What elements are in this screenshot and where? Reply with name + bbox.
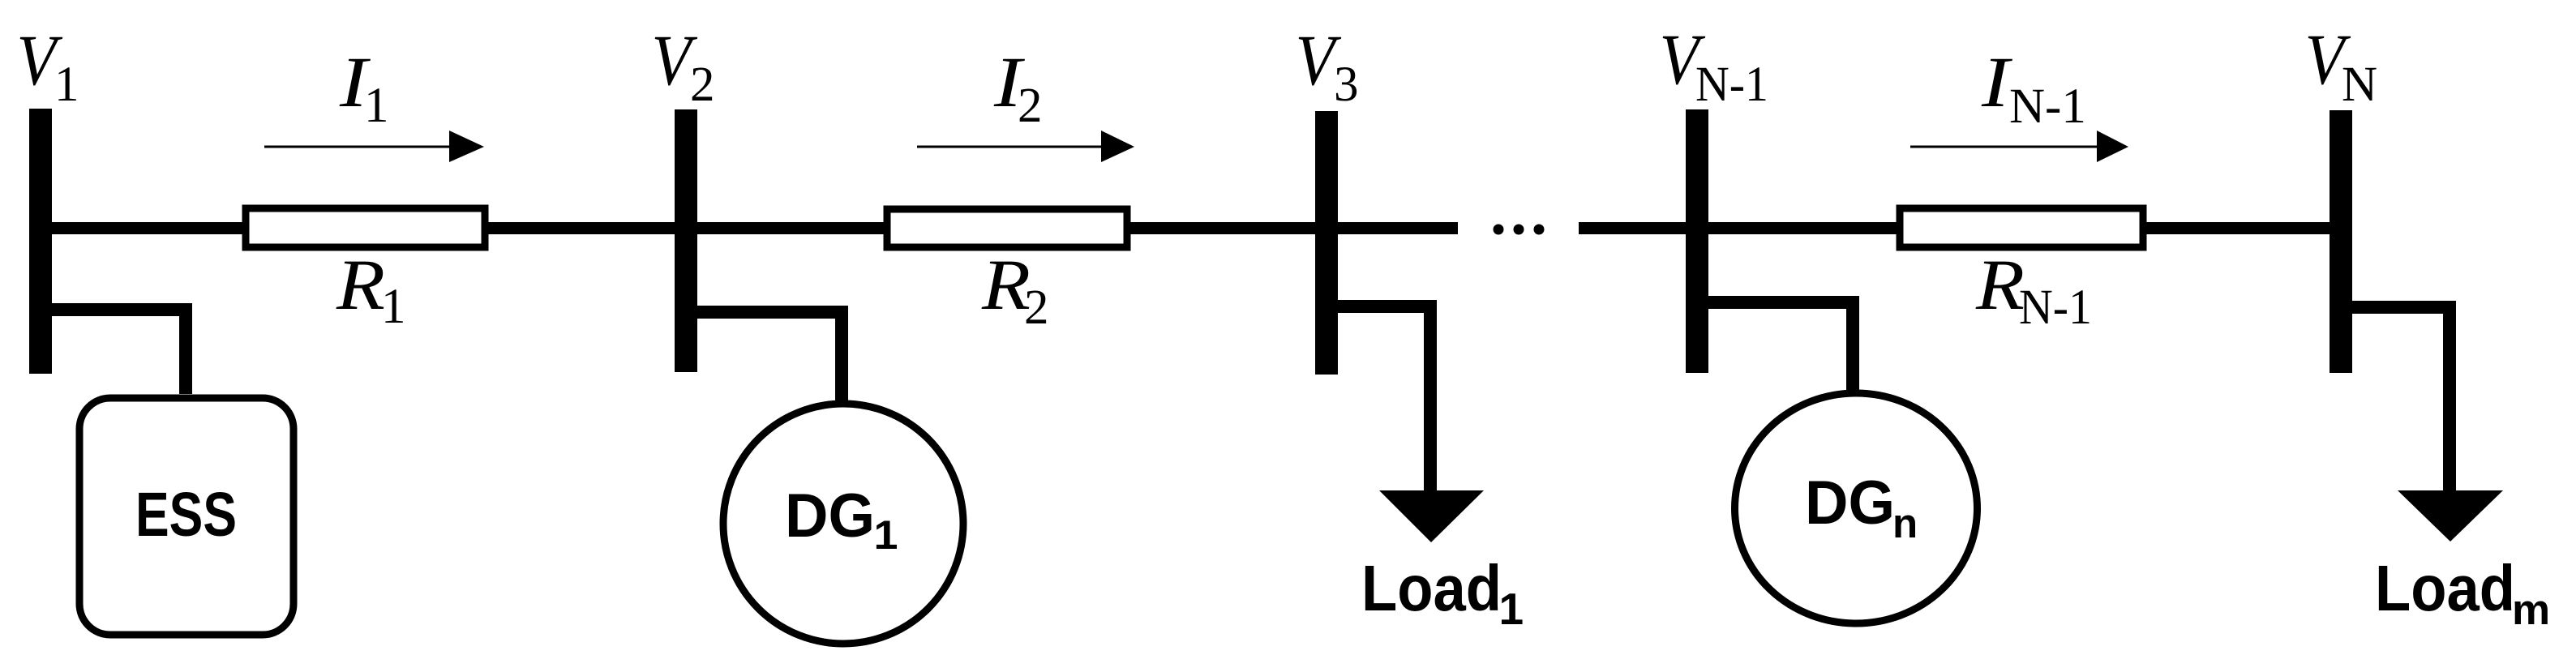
svg-text:2: 2: [690, 58, 715, 112]
svg-text:N-1: N-1: [2019, 280, 2092, 335]
svg-text:N: N: [2342, 58, 2377, 112]
svg-text:R: R: [1975, 246, 2025, 325]
svg-text:1: 1: [381, 280, 406, 334]
svg-text:ESS: ESS: [135, 480, 237, 550]
svg-text:Load: Load: [1361, 552, 1502, 624]
svg-text:1: 1: [364, 79, 389, 133]
svg-text:2: 2: [1024, 280, 1049, 335]
svg-text:I: I: [1981, 43, 2013, 122]
svg-text:n: n: [1892, 500, 1918, 546]
svg-text:m: m: [2512, 586, 2550, 634]
svg-text:N-1: N-1: [2009, 79, 2086, 134]
svg-text:N-1: N-1: [1695, 58, 1768, 112]
svg-text:1: 1: [1499, 584, 1524, 634]
svg-text:Load: Load: [2375, 552, 2515, 624]
svg-text:DG: DG: [1805, 469, 1895, 537]
svg-text:DG: DG: [785, 482, 875, 550]
svg-text:3: 3: [1334, 58, 1359, 112]
svg-text:1: 1: [54, 58, 79, 112]
svg-text:2: 2: [1018, 79, 1043, 133]
svg-text:R: R: [336, 246, 385, 325]
svg-text:1: 1: [874, 512, 898, 558]
svg-text:R: R: [981, 246, 1031, 325]
